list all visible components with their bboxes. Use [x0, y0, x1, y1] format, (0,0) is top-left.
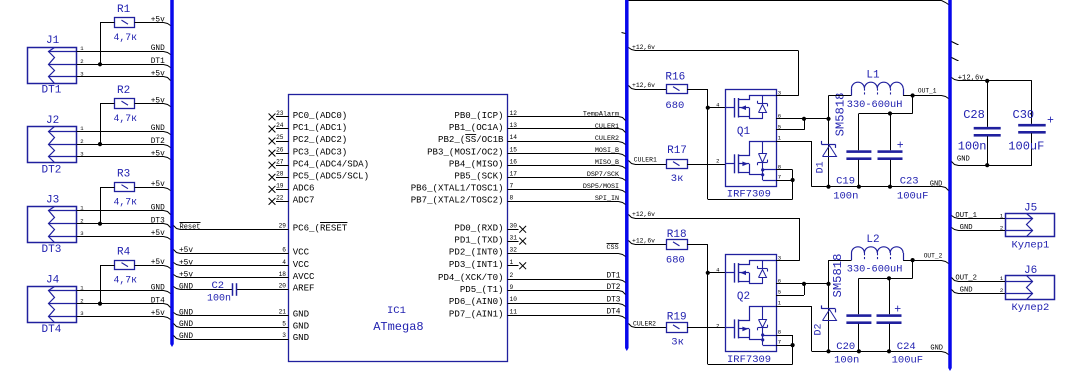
svg-text:DT4: DT4 [151, 297, 165, 305]
svg-text:R1: R1 [117, 4, 131, 16]
svg-text:C2: C2 [212, 280, 225, 292]
svg-text:13: 13 [510, 122, 518, 129]
svg-text:DT1: DT1 [606, 272, 620, 280]
svg-text:PB6_(XTAL1/TOSC1): PB6_(XTAL1/TOSC1) [411, 183, 504, 194]
svg-text:100n: 100n [207, 293, 231, 304]
svg-text:PD2_(INT0): PD2_(INT0) [449, 246, 504, 257]
svg-text:PC2_(ADC2): PC2_(ADC2) [293, 134, 348, 145]
svg-text:3: 3 [282, 332, 286, 339]
svg-text:1: 1 [80, 125, 84, 132]
svg-text:Q1: Q1 [737, 126, 751, 138]
svg-text:PC3_(ADC3): PC3_(ADC3) [293, 146, 348, 157]
svg-text:1: 1 [80, 45, 84, 52]
svg-text:7: 7 [778, 339, 781, 346]
svg-text:1: 1 [1000, 275, 1004, 282]
svg-text:PD7_(AIN1): PD7_(AIN1) [449, 309, 504, 320]
svg-text:R4: R4 [117, 247, 131, 259]
svg-text:ATmega8: ATmega8 [373, 320, 423, 334]
svg-text:3: 3 [80, 230, 83, 237]
svg-text:MISO_B: MISO_B [595, 159, 619, 167]
svg-text:3к: 3к [671, 173, 684, 185]
svg-text:GND: GND [179, 321, 193, 329]
svg-text:SPI_IN: SPI_IN [595, 195, 619, 203]
svg-text:4,7к: 4,7к [114, 32, 138, 43]
svg-text:23: 23 [276, 110, 284, 117]
svg-text:R17: R17 [667, 145, 687, 157]
svg-text:+12,6v: +12,6v [632, 237, 655, 244]
svg-text:VCC: VCC [293, 247, 310, 258]
svg-text:+12,6v: +12,6v [632, 44, 655, 51]
svg-text:1: 1 [778, 300, 782, 307]
svg-text:3: 3 [80, 310, 83, 317]
svg-text:GND: GND [151, 45, 165, 53]
svg-text:100n: 100n [958, 140, 987, 154]
svg-text:100uF: 100uF [892, 354, 924, 366]
svg-text:DT1: DT1 [42, 85, 62, 97]
svg-text:PC4_(ADC4/SDA): PC4_(ADC4/SDA) [293, 158, 369, 169]
svg-text:OUT_2: OUT_2 [955, 274, 977, 282]
svg-text:GND: GND [930, 345, 943, 353]
svg-text:GND: GND [179, 283, 193, 291]
svg-text:DT2: DT2 [151, 138, 165, 146]
svg-text:DT3: DT3 [606, 296, 620, 304]
svg-text:2: 2 [80, 218, 83, 225]
svg-text:L2: L2 [866, 234, 879, 246]
svg-text:PD0_(RXD): PD0_(RXD) [454, 223, 503, 234]
svg-text:+: + [1047, 115, 1054, 128]
svg-text:4,7к: 4,7к [114, 113, 138, 124]
svg-text:+5v: +5v [151, 150, 165, 158]
svg-text:J2: J2 [46, 115, 59, 127]
svg-text:J3: J3 [46, 194, 59, 206]
svg-text:680: 680 [666, 255, 685, 267]
svg-text:680: 680 [665, 100, 684, 112]
svg-text:R2: R2 [117, 85, 130, 97]
svg-text:+5v: +5v [151, 310, 165, 318]
svg-text:+5v: +5v [151, 16, 165, 24]
svg-text:31: 31 [510, 234, 518, 241]
svg-text:+: + [894, 303, 901, 316]
svg-text:7: 7 [510, 183, 514, 190]
svg-text:GND: GND [960, 286, 973, 294]
svg-text:25: 25 [276, 134, 284, 141]
svg-text:8: 8 [778, 329, 781, 336]
svg-text:27: 27 [276, 158, 284, 165]
svg-text:PD6_(AIN0): PD6_(AIN0) [449, 296, 504, 307]
svg-text:CULER1: CULER1 [634, 156, 657, 163]
svg-text:+5v: +5v [179, 272, 193, 280]
svg-text:C23: C23 [900, 176, 919, 188]
svg-text:R19: R19 [667, 311, 687, 323]
svg-text:GND: GND [293, 320, 309, 331]
svg-text:20: 20 [279, 283, 287, 290]
svg-text:GND: GND [151, 284, 165, 292]
svg-text:2: 2 [80, 58, 83, 65]
svg-text:4,7к: 4,7к [114, 274, 138, 285]
svg-text:PD3_(INT1): PD3_(INT1) [449, 259, 504, 270]
svg-text:3: 3 [80, 150, 83, 157]
svg-text:330-600uH: 330-600uH [847, 99, 903, 111]
svg-text:J1: J1 [46, 35, 60, 47]
svg-text:CULER1: CULER1 [595, 123, 619, 131]
svg-text:PD4_(XCK/T0): PD4_(XCK/T0) [438, 272, 504, 283]
svg-text:6: 6 [282, 247, 286, 254]
svg-text:14: 14 [510, 134, 518, 141]
svg-text:PC5_(ADC5/SCL): PC5_(ADC5/SCL) [293, 170, 369, 181]
svg-text:DT4: DT4 [42, 324, 62, 336]
svg-text:PB1_(OC1A): PB1_(OC1A) [449, 122, 504, 133]
svg-text:PB7_(XTAL2/TOSC2): PB7_(XTAL2/TOSC2) [411, 195, 504, 206]
svg-text:AVCC: AVCC [293, 271, 315, 282]
svg-text:2: 2 [716, 157, 719, 164]
svg-text:R16: R16 [665, 72, 685, 84]
svg-text:3к: 3к [671, 336, 684, 348]
svg-text:L1: L1 [866, 70, 880, 82]
svg-text:D2: D2 [814, 323, 825, 335]
svg-text:+5v: +5v [179, 247, 193, 255]
svg-text:PC6_(RESET: PC6_(RESET [293, 223, 348, 234]
svg-text:R18: R18 [667, 229, 687, 241]
svg-text:16: 16 [510, 158, 518, 165]
svg-text:+5v: +5v [151, 259, 165, 267]
svg-text:12: 12 [510, 110, 518, 117]
svg-text:PB3_(MOSI/OC2): PB3_(MOSI/OC2) [427, 146, 503, 157]
svg-text:IRF7309: IRF7309 [727, 189, 771, 201]
svg-text:GND: GND [151, 125, 165, 133]
svg-text:+5v: +5v [151, 230, 165, 238]
svg-text:GND: GND [957, 155, 970, 163]
svg-text:8: 8 [510, 195, 514, 202]
svg-text:DT2: DT2 [42, 164, 62, 176]
svg-text:+12,6v: +12,6v [958, 75, 985, 83]
svg-text:2: 2 [80, 297, 83, 304]
svg-text:VCC: VCC [293, 259, 310, 270]
svg-text:+12,6v: +12,6v [632, 211, 655, 218]
svg-text:IC1: IC1 [387, 305, 406, 317]
svg-text:DSP7/SCK: DSP7/SCK [587, 171, 619, 179]
svg-text:15: 15 [510, 146, 518, 153]
svg-text:GND: GND [930, 181, 943, 189]
svg-text:PB5_(SCK): PB5_(SCK) [454, 170, 503, 181]
svg-text:2: 2 [716, 323, 719, 330]
svg-text:22: 22 [276, 195, 284, 202]
svg-text:ADC7: ADC7 [293, 195, 315, 206]
svg-text:100uF: 100uF [897, 190, 929, 202]
svg-text:5: 5 [778, 289, 781, 296]
svg-text:3: 3 [80, 71, 83, 78]
svg-text:GND: GND [293, 309, 309, 320]
svg-text:2: 2 [80, 138, 83, 145]
svg-text:100n: 100n [833, 190, 858, 202]
svg-text:GND: GND [293, 332, 309, 343]
svg-text:C30: C30 [1013, 108, 1035, 122]
svg-text:R3: R3 [117, 169, 130, 181]
svg-text:10: 10 [510, 296, 518, 303]
svg-text:Кулер2: Кулер2 [1012, 302, 1050, 314]
svg-text:Reset: Reset [180, 224, 201, 232]
svg-text:C20: C20 [836, 341, 855, 353]
svg-text:PB0_(ICP): PB0_(ICP) [454, 110, 503, 121]
svg-text:CSS: CSS [607, 244, 619, 252]
svg-text:+5v: +5v [151, 97, 165, 105]
svg-text:29: 29 [279, 223, 287, 230]
svg-text:18: 18 [279, 271, 287, 278]
svg-text:2: 2 [1000, 224, 1003, 231]
svg-text:J5: J5 [1024, 203, 1037, 215]
svg-text:DT4: DT4 [606, 309, 620, 317]
svg-text:330-600uH: 330-600uH [847, 264, 903, 276]
svg-text:J6: J6 [1024, 265, 1037, 277]
svg-text:+5v: +5v [151, 181, 165, 189]
svg-text:CULER2: CULER2 [595, 135, 619, 143]
svg-text:Кулер1: Кулер1 [1012, 240, 1050, 252]
svg-text:5: 5 [282, 320, 286, 327]
svg-text:+12,6v: +12,6v [632, 82, 655, 89]
svg-text:4,7к: 4,7к [114, 196, 138, 207]
svg-text:PB2_(SS/OC1B: PB2_(SS/OC1B [438, 134, 504, 145]
svg-text:PD5_(T1): PD5_(T1) [460, 284, 504, 295]
svg-text:AREF: AREF [293, 283, 315, 294]
svg-text:SM5818: SM5818 [834, 93, 848, 137]
svg-text:MOSI_B: MOSI_B [595, 147, 619, 155]
svg-text:OUT_1: OUT_1 [955, 212, 977, 220]
svg-text:DT2: DT2 [606, 284, 620, 292]
svg-text:J4: J4 [46, 274, 60, 286]
svg-text:100uF: 100uF [1008, 140, 1044, 154]
svg-text:DT3: DT3 [42, 244, 62, 256]
svg-text:ADC6: ADC6 [293, 183, 315, 194]
svg-text:+5v: +5v [151, 71, 165, 79]
svg-text:C28: C28 [963, 108, 985, 122]
svg-text:IRF7309: IRF7309 [727, 354, 771, 366]
svg-text:2: 2 [510, 272, 514, 279]
svg-text:PC0_(ADC0): PC0_(ADC0) [293, 110, 348, 121]
svg-text:9: 9 [510, 284, 514, 291]
svg-text:28: 28 [276, 170, 284, 177]
svg-text:DT3: DT3 [151, 218, 165, 226]
svg-text:PD1_(TXD): PD1_(TXD) [454, 234, 503, 245]
svg-text:+: + [897, 140, 904, 153]
svg-text:GND: GND [960, 224, 973, 232]
svg-text:GND: GND [179, 309, 193, 317]
svg-text:30: 30 [510, 223, 518, 230]
svg-text:C24: C24 [897, 341, 916, 353]
svg-text:7: 7 [778, 174, 781, 181]
svg-text:OUT_1: OUT_1 [918, 88, 937, 95]
svg-text:DSP5/MOSI: DSP5/MOSI [583, 183, 619, 191]
svg-text:GND: GND [179, 333, 193, 341]
svg-text:19: 19 [276, 183, 284, 190]
svg-text:1: 1 [510, 259, 514, 266]
svg-text:4: 4 [282, 259, 286, 266]
svg-text:Q2: Q2 [737, 291, 750, 303]
svg-text:+5v: +5v [179, 260, 193, 268]
svg-text:DT1: DT1 [151, 58, 165, 66]
svg-text:32: 32 [510, 246, 518, 253]
svg-text:OUT_2: OUT_2 [924, 252, 943, 259]
svg-text:24: 24 [276, 122, 284, 129]
svg-text:CULER2: CULER2 [633, 321, 656, 328]
svg-text:1: 1 [778, 135, 782, 142]
svg-text:PB4_(MISO): PB4_(MISO) [449, 158, 504, 169]
svg-text:PC1_(ADC1): PC1_(ADC1) [293, 122, 348, 133]
svg-text:2: 2 [1000, 287, 1003, 294]
svg-text:D1: D1 [816, 161, 827, 173]
svg-text:C19: C19 [836, 176, 855, 188]
svg-text:17: 17 [510, 170, 518, 177]
svg-text:11: 11 [510, 309, 518, 316]
svg-text:TempAlarm: TempAlarm [583, 111, 619, 119]
svg-text:100n: 100n [834, 354, 859, 366]
svg-text:26: 26 [276, 146, 284, 153]
svg-text:GND: GND [151, 204, 165, 212]
svg-text:21: 21 [279, 309, 287, 316]
